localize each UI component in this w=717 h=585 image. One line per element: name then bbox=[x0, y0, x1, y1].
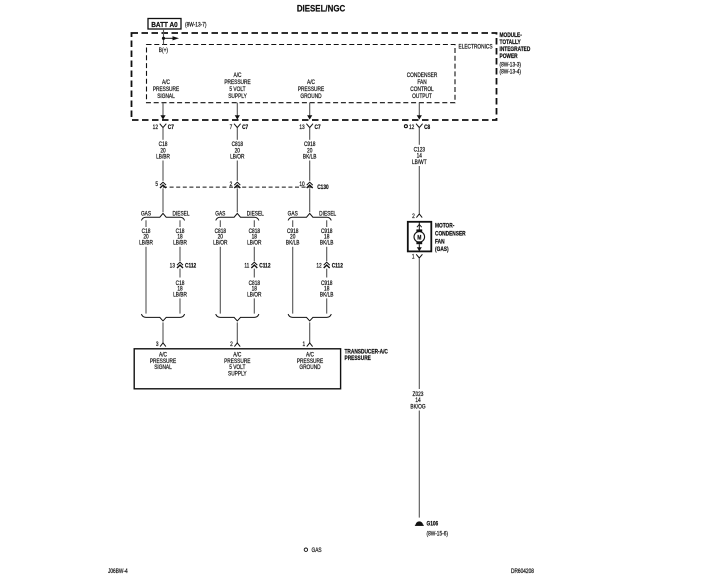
svg-text:LB/OR: LB/OR bbox=[247, 240, 261, 247]
svg-text:GAS: GAS bbox=[215, 211, 225, 218]
svg-text:13: 13 bbox=[170, 263, 175, 270]
svg-text:LB/BR: LB/BR bbox=[139, 240, 153, 247]
svg-text:LB/OR: LB/OR bbox=[213, 240, 227, 247]
svg-text:11: 11 bbox=[244, 263, 249, 270]
svg-text:1: 1 bbox=[412, 254, 415, 261]
svg-text:12: 12 bbox=[153, 124, 158, 131]
svg-text:G106: G106 bbox=[427, 521, 439, 528]
svg-text:A/C: A/C bbox=[307, 80, 315, 87]
svg-text:A/C: A/C bbox=[234, 73, 242, 80]
svg-text:(8W-15-6): (8W-15-6) bbox=[427, 531, 449, 538]
svg-text:SUPPLY: SUPPLY bbox=[228, 371, 247, 378]
svg-text:BK/OG: BK/OG bbox=[410, 404, 425, 411]
svg-text:2: 2 bbox=[230, 341, 233, 348]
svg-text:1: 1 bbox=[303, 341, 306, 348]
svg-text:CONDENSER: CONDENSER bbox=[407, 73, 438, 80]
svg-text:LB/WT: LB/WT bbox=[412, 159, 427, 166]
svg-text:C112: C112 bbox=[332, 263, 343, 270]
svg-text:SUPPLY: SUPPLY bbox=[228, 94, 247, 101]
svg-text:DIESEL/NGC: DIESEL/NGC bbox=[297, 3, 345, 14]
svg-text:C112: C112 bbox=[185, 263, 196, 270]
svg-text:2: 2 bbox=[412, 214, 415, 221]
svg-text:5 VOLT: 5 VOLT bbox=[229, 87, 246, 94]
svg-text:CONDENSER: CONDENSER bbox=[435, 231, 466, 238]
svg-text:BK/LB: BK/LB bbox=[286, 240, 300, 247]
svg-text:12: 12 bbox=[316, 263, 321, 270]
svg-text:LB/BR: LB/BR bbox=[173, 292, 187, 299]
svg-text:(GAS): (GAS) bbox=[435, 247, 449, 254]
svg-text:GROUND: GROUND bbox=[299, 365, 320, 372]
svg-text:C7: C7 bbox=[242, 124, 248, 131]
svg-text:BK/LB: BK/LB bbox=[303, 154, 317, 161]
svg-text:A/C: A/C bbox=[162, 80, 170, 87]
svg-text:PRESSURE: PRESSURE bbox=[224, 80, 251, 87]
svg-text:DIESEL: DIESEL bbox=[172, 211, 189, 218]
svg-text:OUTPUT: OUTPUT bbox=[412, 94, 432, 101]
svg-text:PRESSURE: PRESSURE bbox=[345, 356, 372, 363]
svg-text:LB/OR: LB/OR bbox=[247, 292, 261, 299]
svg-text:DR604208: DR604208 bbox=[511, 569, 534, 576]
svg-text:MODULE-: MODULE- bbox=[500, 33, 523, 40]
svg-text:DIESEL: DIESEL bbox=[319, 211, 336, 218]
svg-text:C112: C112 bbox=[259, 263, 270, 270]
svg-text:INTEGRATED: INTEGRATED bbox=[500, 47, 531, 54]
svg-text:MOTOR-: MOTOR- bbox=[435, 223, 455, 230]
svg-text:DIESEL: DIESEL bbox=[247, 211, 264, 218]
svg-text:LB/BR: LB/BR bbox=[156, 154, 170, 161]
svg-text:(8W-13-4): (8W-13-4) bbox=[500, 69, 522, 76]
svg-text:FAN: FAN bbox=[417, 80, 426, 87]
svg-text:SIGNAL: SIGNAL bbox=[154, 365, 172, 372]
svg-text:PRESSURE: PRESSURE bbox=[298, 87, 325, 94]
svg-text:POWER: POWER bbox=[500, 54, 518, 61]
svg-text:GAS: GAS bbox=[141, 211, 151, 218]
svg-text:(8W-13-7): (8W-13-7) bbox=[185, 22, 207, 29]
svg-text:GAS: GAS bbox=[312, 548, 322, 555]
svg-text:12: 12 bbox=[409, 124, 414, 131]
svg-text:C7: C7 bbox=[315, 124, 321, 131]
svg-text:LB/BR: LB/BR bbox=[173, 240, 187, 247]
svg-text:GAS: GAS bbox=[288, 211, 298, 218]
svg-text:BK/LB: BK/LB bbox=[320, 240, 334, 247]
svg-text:CONTROL: CONTROL bbox=[410, 87, 433, 94]
svg-text:FAN: FAN bbox=[435, 239, 445, 246]
svg-text:13: 13 bbox=[299, 124, 304, 131]
svg-text:(8W-13-3): (8W-13-3) bbox=[500, 62, 522, 69]
svg-text:J06BW-4: J06BW-4 bbox=[108, 569, 128, 576]
svg-text:5: 5 bbox=[155, 182, 158, 189]
svg-text:C7: C7 bbox=[168, 124, 174, 131]
svg-text:TOTALLY: TOTALLY bbox=[500, 40, 522, 47]
svg-text:C130: C130 bbox=[317, 184, 328, 191]
svg-text:BK/LB: BK/LB bbox=[320, 292, 334, 299]
svg-text:BATT A0: BATT A0 bbox=[151, 22, 178, 29]
svg-text:PRESSURE: PRESSURE bbox=[153, 87, 180, 94]
svg-text:B(+): B(+) bbox=[159, 47, 168, 54]
svg-text:SIGNAL: SIGNAL bbox=[157, 94, 175, 101]
svg-text:GROUND: GROUND bbox=[300, 94, 321, 101]
svg-text:3: 3 bbox=[156, 341, 159, 348]
svg-text:ELECTRONICS: ELECTRONICS bbox=[459, 44, 493, 51]
svg-text:C8: C8 bbox=[424, 124, 430, 131]
svg-text:M: M bbox=[417, 235, 421, 242]
svg-text:LB/OR: LB/OR bbox=[230, 154, 244, 161]
svg-text:7: 7 bbox=[230, 124, 233, 131]
